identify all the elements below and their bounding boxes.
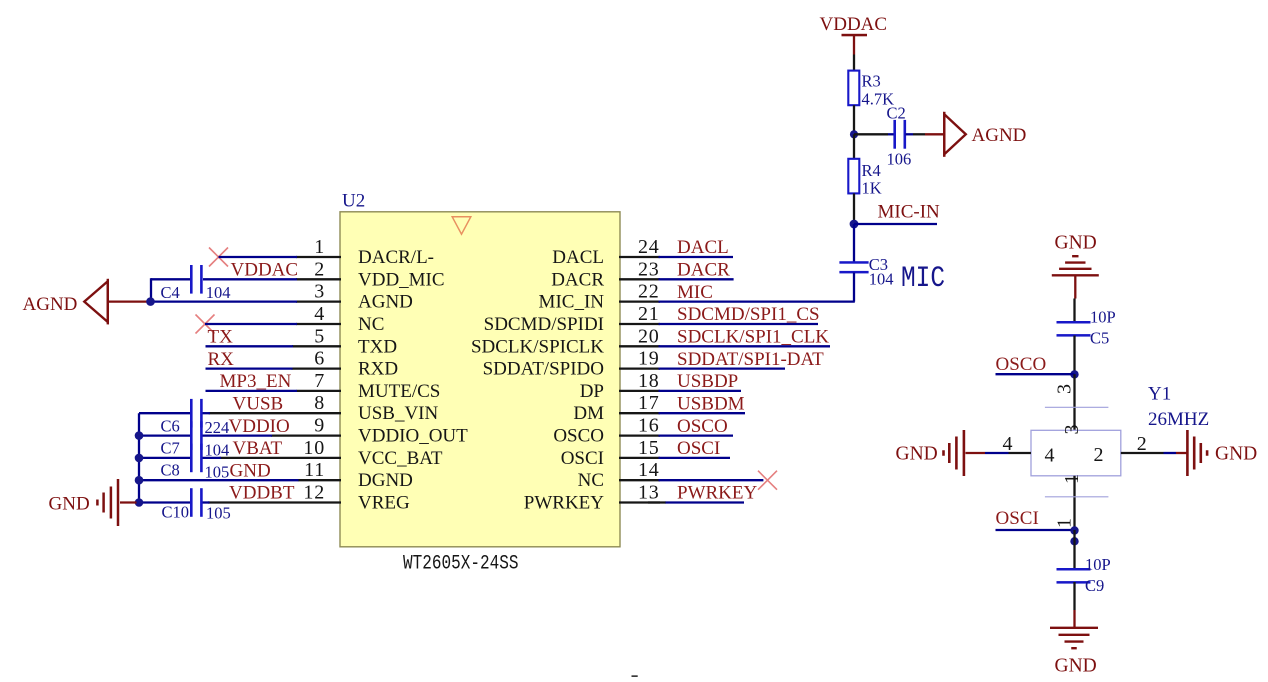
svg-text:18: 18 bbox=[638, 370, 660, 392]
svg-text:GND: GND bbox=[1215, 444, 1257, 465]
svg-text:SDCLK/SPICLK: SDCLK/SPICLK bbox=[471, 336, 604, 357]
svg-text:3: 3 bbox=[1061, 425, 1083, 435]
svg-text:R3: R3 bbox=[862, 72, 881, 91]
svg-text:DACR: DACR bbox=[677, 260, 730, 281]
svg-text:USBDP: USBDP bbox=[677, 371, 738, 392]
svg-text:USB_VIN: USB_VIN bbox=[358, 403, 439, 424]
svg-text:DM: DM bbox=[573, 403, 604, 424]
svg-text:DACR: DACR bbox=[551, 269, 604, 290]
svg-text:C5: C5 bbox=[1090, 329, 1109, 348]
svg-text:AGND: AGND bbox=[358, 292, 413, 313]
svg-text:1: 1 bbox=[1054, 518, 1076, 528]
svg-text:SDCMD/SPIDI: SDCMD/SPIDI bbox=[484, 314, 604, 335]
svg-text:19: 19 bbox=[638, 348, 660, 370]
svg-text:OSCI: OSCI bbox=[677, 438, 720, 459]
svg-text:DACL: DACL bbox=[552, 247, 604, 268]
svg-text:SDCLK/SPI1_CLK: SDCLK/SPI1_CLK bbox=[677, 327, 829, 348]
svg-text:106: 106 bbox=[887, 149, 912, 168]
svg-text:10: 10 bbox=[303, 437, 325, 459]
svg-text:21: 21 bbox=[638, 303, 660, 325]
svg-text:105: 105 bbox=[205, 463, 230, 482]
svg-text:WT2605X-24SS: WT2605X-24SS bbox=[403, 552, 519, 575]
svg-text:MIC_IN: MIC_IN bbox=[539, 292, 605, 313]
svg-text:SDDAT/SPIDO: SDDAT/SPIDO bbox=[483, 359, 604, 380]
svg-text:105: 105 bbox=[206, 504, 231, 523]
svg-text:2: 2 bbox=[314, 258, 325, 280]
svg-text:23: 23 bbox=[638, 258, 660, 280]
svg-text:22: 22 bbox=[638, 281, 660, 303]
svg-text:7: 7 bbox=[314, 370, 325, 392]
svg-text:15: 15 bbox=[638, 437, 660, 459]
svg-text:OSCO: OSCO bbox=[677, 416, 728, 437]
svg-text:4: 4 bbox=[1003, 433, 1013, 455]
svg-text:NC: NC bbox=[358, 314, 384, 335]
svg-text:104: 104 bbox=[205, 441, 230, 460]
svg-text:9: 9 bbox=[314, 415, 325, 437]
svg-text:C6: C6 bbox=[161, 417, 180, 436]
svg-text:U2: U2 bbox=[342, 191, 365, 212]
svg-text:VDD_MIC: VDD_MIC bbox=[358, 269, 445, 290]
svg-text:C9: C9 bbox=[1085, 576, 1104, 595]
svg-text:AGND: AGND bbox=[23, 294, 78, 315]
svg-text:1: 1 bbox=[1061, 474, 1083, 484]
svg-text:NC: NC bbox=[578, 470, 604, 491]
svg-text:VDDAC: VDDAC bbox=[231, 260, 299, 281]
svg-text:TX: TX bbox=[208, 327, 234, 348]
svg-text:RX: RX bbox=[208, 349, 235, 370]
svg-text:5: 5 bbox=[314, 325, 325, 347]
svg-text:12: 12 bbox=[303, 482, 325, 504]
svg-text:PWRKEY: PWRKEY bbox=[524, 493, 605, 514]
svg-text:14: 14 bbox=[638, 459, 660, 481]
svg-text:16: 16 bbox=[638, 415, 660, 437]
svg-text:DGND: DGND bbox=[358, 470, 413, 491]
svg-text:DACL: DACL bbox=[677, 237, 729, 258]
svg-text:3: 3 bbox=[314, 281, 325, 303]
svg-text:10P: 10P bbox=[1090, 308, 1116, 327]
svg-text:13: 13 bbox=[638, 482, 660, 504]
svg-text:OSCI: OSCI bbox=[996, 508, 1039, 529]
svg-text:SDDAT/SPI1-DAT: SDDAT/SPI1-DAT bbox=[677, 349, 824, 370]
svg-text:VREG: VREG bbox=[358, 493, 410, 514]
svg-text:R4: R4 bbox=[862, 161, 881, 180]
svg-text:PWRKEY: PWRKEY bbox=[677, 483, 758, 504]
svg-text:AGND: AGND bbox=[972, 125, 1027, 146]
svg-text:26MHZ: 26MHZ bbox=[1148, 409, 1209, 430]
svg-text:DP: DP bbox=[580, 381, 604, 402]
svg-text:OSCI: OSCI bbox=[561, 448, 604, 469]
svg-text:MIC: MIC bbox=[677, 282, 713, 303]
svg-text:TXD: TXD bbox=[358, 336, 397, 357]
svg-text:10P: 10P bbox=[1085, 555, 1111, 574]
svg-text:MUTE/CS: MUTE/CS bbox=[358, 381, 440, 402]
svg-text:20: 20 bbox=[638, 325, 660, 347]
svg-text:USBDM: USBDM bbox=[677, 393, 745, 414]
svg-text:3: 3 bbox=[1054, 384, 1076, 394]
svg-text:OSCO: OSCO bbox=[553, 426, 604, 447]
svg-text:C8: C8 bbox=[161, 461, 180, 480]
svg-text:VDDIO: VDDIO bbox=[229, 416, 290, 437]
svg-text:C2: C2 bbox=[887, 103, 906, 122]
svg-text:C10: C10 bbox=[162, 503, 190, 522]
svg-text:104: 104 bbox=[206, 283, 231, 302]
svg-text:VDDIO_OUT: VDDIO_OUT bbox=[358, 426, 468, 447]
svg-text:11: 11 bbox=[304, 459, 325, 481]
svg-text:GND: GND bbox=[230, 460, 271, 481]
svg-text:1: 1 bbox=[314, 236, 325, 258]
svg-text:224: 224 bbox=[205, 418, 230, 437]
svg-text:OSCO: OSCO bbox=[996, 354, 1047, 375]
svg-text:104: 104 bbox=[869, 270, 894, 289]
svg-text:GND: GND bbox=[896, 444, 938, 465]
svg-text:4: 4 bbox=[1045, 445, 1055, 467]
svg-text:MP3_EN: MP3_EN bbox=[220, 371, 292, 392]
svg-text:DACR/L-: DACR/L- bbox=[358, 247, 434, 268]
svg-text:C4: C4 bbox=[161, 283, 180, 302]
svg-text:RXD: RXD bbox=[358, 359, 398, 380]
svg-text:SDCMD/SPI1_CS: SDCMD/SPI1_CS bbox=[677, 304, 820, 325]
svg-text:VDDAC: VDDAC bbox=[820, 14, 888, 35]
svg-text:C7: C7 bbox=[161, 439, 180, 458]
svg-text:4: 4 bbox=[314, 303, 325, 325]
svg-text:24: 24 bbox=[638, 236, 660, 258]
svg-text:VBAT: VBAT bbox=[233, 438, 283, 459]
svg-text:MIC-IN: MIC-IN bbox=[878, 201, 941, 222]
svg-text:8: 8 bbox=[314, 392, 325, 414]
svg-text:2: 2 bbox=[1137, 433, 1147, 455]
svg-text:Y1: Y1 bbox=[1148, 384, 1171, 405]
svg-text:GND: GND bbox=[1055, 655, 1097, 676]
svg-text:1K: 1K bbox=[862, 179, 882, 198]
svg-text:VCC_BAT: VCC_BAT bbox=[358, 448, 443, 469]
svg-text:6: 6 bbox=[314, 348, 325, 370]
svg-text:GND: GND bbox=[49, 494, 90, 515]
svg-text:GND: GND bbox=[1055, 233, 1097, 254]
svg-text:MIC: MIC bbox=[901, 262, 945, 296]
svg-text:VUSB: VUSB bbox=[233, 393, 284, 414]
svg-text:2: 2 bbox=[1094, 444, 1104, 466]
svg-text:VDDBT: VDDBT bbox=[229, 483, 295, 504]
svg-text:17: 17 bbox=[638, 392, 660, 414]
